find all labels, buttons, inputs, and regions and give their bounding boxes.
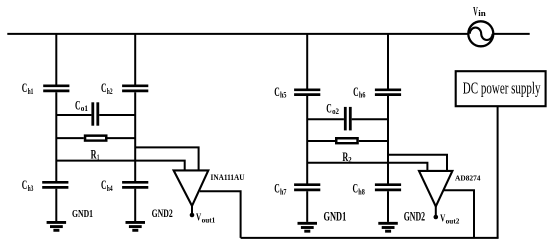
- AC source Vin: [468, 21, 493, 46]
- label Ch2: [101, 80, 113, 96]
- capacitor Ch7: [294, 185, 320, 190]
- svg-text:h2: h2: [107, 87, 113, 96]
- label GND1 right: [324, 209, 347, 223]
- svg-text:C: C: [274, 181, 280, 196]
- wire D to op-amp2 right input: [388, 155, 447, 171]
- wire A to op-amp left input: [56, 161, 184, 171]
- wire line D lower stem: [387, 191, 389, 222]
- wire line B middle: [134, 92, 136, 181]
- DC power supply box: [456, 71, 546, 106]
- svg-text:GND1: GND1: [72, 208, 93, 220]
- capacitor Ch2: [122, 86, 148, 91]
- wire top rail: [7, 33, 529, 35]
- svg-text:h4: h4: [107, 184, 113, 193]
- wire bottom rail: [241, 237, 499, 239]
- label AD8274: [455, 174, 481, 183]
- label GND2 right: [404, 210, 425, 224]
- svg-text:h8: h8: [358, 187, 365, 196]
- ground GND2 right: [378, 223, 398, 231]
- svg-text:h5: h5: [280, 91, 287, 100]
- capacitor Ch1: [43, 86, 69, 91]
- capacitor Co1: [56, 102, 135, 125]
- wire op-amp1 output to bottom rail: [200, 191, 241, 238]
- svg-text:in: in: [478, 8, 486, 18]
- label Co2: [326, 100, 339, 116]
- svg-text:out1: out1: [202, 216, 216, 224]
- svg-text:DC power supply: DC power supply: [463, 79, 541, 98]
- wire line C lower stem: [306, 191, 308, 222]
- svg-text:h1: h1: [28, 87, 34, 96]
- svg-text:INA111AU: INA111AU: [211, 173, 245, 182]
- svg-text:C: C: [353, 84, 359, 99]
- svg-text:out2: out2: [446, 217, 460, 225]
- label GND2 left: [152, 208, 173, 220]
- capacitor Ch4: [122, 182, 148, 187]
- label Ch1: [22, 80, 34, 96]
- svg-text:C: C: [22, 177, 28, 192]
- label Ch8: [353, 181, 365, 197]
- label R2: [342, 150, 351, 165]
- label Vin: [473, 5, 486, 19]
- wire line C middle: [306, 96, 308, 184]
- node/wire line A upper: [55, 34, 57, 85]
- svg-text:C: C: [326, 100, 332, 115]
- wire line A middle: [55, 92, 57, 181]
- svg-text:GND2: GND2: [152, 208, 173, 220]
- ground GND1 left: [47, 222, 67, 230]
- wire DC supply drop: [497, 107, 499, 238]
- svg-text:h6: h6: [359, 91, 366, 100]
- svg-text:C: C: [101, 80, 107, 95]
- ground GND2 left: [126, 222, 146, 230]
- wire Vout2 stub: [435, 206, 437, 216]
- capacitor Ch3: [42, 182, 68, 187]
- label INA111AU: [211, 173, 245, 182]
- svg-text:AD8274: AD8274: [455, 174, 481, 183]
- svg-text:C: C: [353, 181, 359, 196]
- label Vout2: [440, 214, 460, 226]
- wire C to op-amp2 left input: [307, 163, 427, 171]
- op-amp U1 INA111AU: [174, 170, 209, 206]
- wire line C upper: [306, 34, 308, 89]
- svg-text:h7: h7: [280, 187, 287, 196]
- svg-text:GND2: GND2: [404, 210, 425, 224]
- wire line B lower stem: [134, 189, 136, 221]
- capacitor Ch8: [375, 185, 401, 190]
- svg-text:o2: o2: [332, 107, 339, 116]
- capacitor Ch6: [375, 90, 401, 95]
- node Vout1 dot: [190, 213, 195, 218]
- resistor R2: [307, 137, 388, 144]
- svg-text:GND1: GND1: [324, 209, 347, 223]
- label R1: [91, 147, 100, 162]
- label Vout1: [196, 213, 216, 225]
- wire op-amp2 output to bottom rail: [444, 190, 475, 238]
- svg-text:o1: o1: [81, 104, 88, 113]
- wire Vout1 stub: [191, 206, 193, 215]
- wire line A lower stem: [55, 189, 57, 221]
- svg-text:C: C: [75, 97, 81, 112]
- svg-text:C: C: [101, 177, 107, 192]
- label GND1 left: [72, 208, 93, 220]
- label Ch3: [22, 177, 34, 193]
- label Ch4: [101, 177, 113, 193]
- label DC power supply: [463, 79, 541, 98]
- node Vout2 dot: [434, 215, 439, 220]
- ground GND1 right: [298, 223, 318, 231]
- op-amp U2 AD8274: [419, 171, 452, 207]
- wire line D upper: [387, 34, 389, 89]
- label Ch6: [353, 84, 365, 100]
- resistor R1: [56, 134, 135, 141]
- wire line D middle: [387, 96, 389, 184]
- svg-text:V: V: [473, 5, 478, 19]
- svg-text:C: C: [22, 80, 28, 95]
- svg-text:h3: h3: [28, 184, 34, 193]
- svg-text:C: C: [274, 84, 280, 99]
- label Co1: [75, 97, 88, 113]
- capacitor Ch5: [294, 90, 320, 95]
- label Ch7: [274, 181, 286, 197]
- capacitor Co2: [307, 107, 388, 130]
- wire B to op-amp right input: [135, 147, 198, 170]
- label Ch5: [274, 84, 286, 100]
- wire line B upper: [134, 34, 136, 85]
